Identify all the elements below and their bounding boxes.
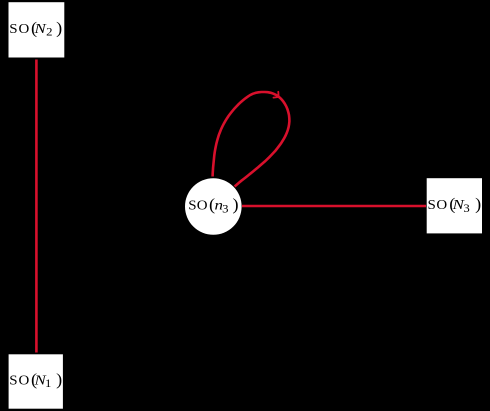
svg-text:n: n: [215, 198, 224, 213]
svg-text:N: N: [451, 197, 464, 212]
svg-text:N: N: [33, 21, 46, 36]
svg-text:N: N: [33, 373, 46, 388]
